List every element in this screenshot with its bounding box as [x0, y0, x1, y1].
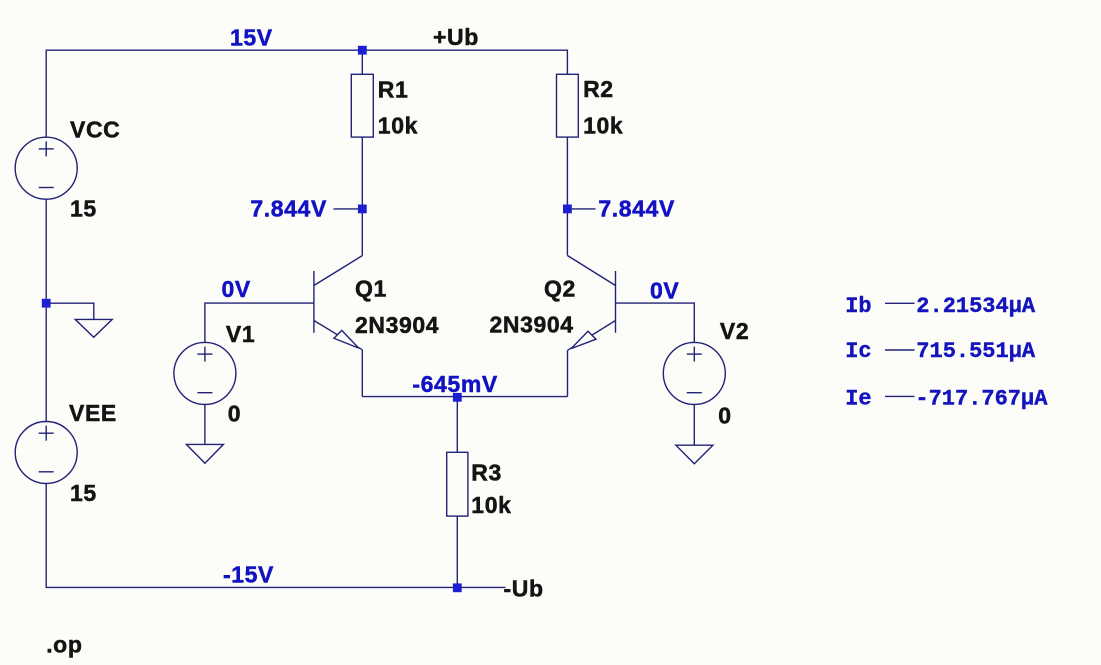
- transistor Q1: [314, 256, 362, 397]
- svg-text:0V: 0V: [222, 276, 251, 302]
- wire ground branch from left column: [46, 303, 94, 319]
- svg-text:VCC: VCC: [70, 117, 120, 143]
- wire R1 top lead: [361, 50, 363, 74]
- svg-text:R2: R2: [583, 76, 614, 102]
- svg-text:0V: 0V: [650, 278, 679, 304]
- wire emitter node -645mV: [362, 396, 567, 398]
- wire VEE to bottom rail: [46, 484, 457, 588]
- voltage source VEE: [15, 422, 77, 484]
- svg-text:Ie: Ie: [845, 387, 871, 412]
- current probe dash Ie: [885, 395, 915, 397]
- svg-text:+Ub: +Ub: [433, 24, 479, 50]
- wire R3 top lead: [456, 397, 458, 453]
- voltage source V2: [663, 342, 725, 404]
- svg-text:R3: R3: [471, 459, 502, 485]
- svg-text:V1: V1: [226, 321, 255, 347]
- svg-text:0: 0: [718, 403, 731, 429]
- svg-text:10k: 10k: [471, 492, 511, 518]
- voltage source V1: [174, 342, 236, 404]
- wire R2 bottom to Q2 collector: [566, 137, 568, 255]
- svg-text:-717.767µA: -717.767µA: [915, 387, 1048, 412]
- svg-text:VEE: VEE: [69, 400, 117, 426]
- svg-text:R1: R1: [378, 76, 409, 102]
- ground (left rail): [75, 319, 112, 337]
- resistor R3: [447, 452, 468, 516]
- svg-text:10k: 10k: [583, 113, 623, 139]
- resistor R1: [351, 74, 373, 137]
- svg-text:7.844V: 7.844V: [598, 195, 675, 221]
- wire R3 bottom lead: [456, 516, 458, 587]
- svg-text:-15V: -15V: [223, 562, 274, 588]
- svg-text:0: 0: [228, 401, 241, 427]
- svg-text:-645mV: -645mV: [412, 371, 497, 397]
- svg-text:15: 15: [70, 196, 97, 222]
- wire 7.844V left stub: [334, 208, 363, 210]
- svg-text:715.551µA: 715.551µA: [916, 339, 1036, 364]
- wire VCC to VEE left column: [45, 199, 47, 421]
- junction -Ub / R3: [453, 583, 462, 592]
- junction -645mV / R3: [453, 393, 462, 402]
- svg-text:2N3904: 2N3904: [355, 312, 439, 338]
- wire 7.844V right stub: [567, 208, 595, 210]
- svg-text:-Ub: -Ub: [504, 575, 544, 601]
- junction +Ub / R1: [358, 46, 367, 55]
- wire V2 to ground: [693, 404, 695, 445]
- wire V1 to ground: [204, 404, 206, 444]
- wire Q2 base to V2: [616, 303, 695, 342]
- wire top rail +Ub: [46, 50, 567, 137]
- wire R1 bottom to Q1 collector: [361, 137, 363, 256]
- junction 7.844V right: [563, 205, 572, 214]
- ground (V1): [186, 444, 223, 463]
- svg-text:7.844V: 7.844V: [250, 195, 327, 221]
- wire V1 to Q1 base: [205, 303, 314, 342]
- svg-text:2.21534µA: 2.21534µA: [916, 294, 1036, 319]
- current probe dash Ib: [885, 302, 915, 304]
- svg-text:10k: 10k: [378, 113, 418, 139]
- svg-text:Q2: Q2: [544, 276, 576, 302]
- resistor R2: [557, 74, 579, 137]
- ground (V2): [676, 445, 713, 464]
- svg-text:Ib: Ib: [845, 294, 871, 319]
- svg-text:V2: V2: [720, 318, 749, 344]
- junction left rail ground: [42, 299, 51, 308]
- svg-text:Ic: Ic: [845, 339, 871, 364]
- junction 7.844V left: [358, 205, 367, 214]
- wire -Ub stub: [457, 586, 505, 588]
- svg-text:.op: .op: [46, 632, 82, 658]
- svg-text:2N3904: 2N3904: [490, 311, 574, 337]
- svg-text:15: 15: [70, 480, 97, 506]
- svg-text:15V: 15V: [230, 25, 273, 51]
- transistor Q2: [567, 256, 615, 397]
- voltage source VCC: [15, 137, 77, 199]
- svg-text:Q1: Q1: [355, 276, 387, 302]
- current probe dash Ic: [885, 349, 915, 351]
